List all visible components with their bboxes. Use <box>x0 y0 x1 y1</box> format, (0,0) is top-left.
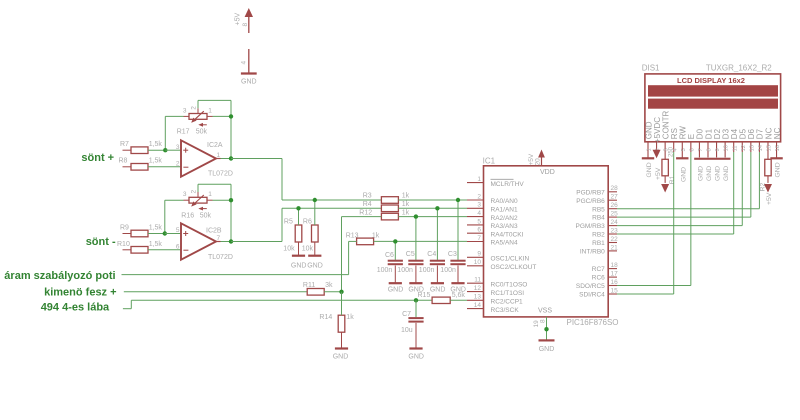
svg-text:15: 15 <box>611 287 619 294</box>
svg-text:6: 6 <box>176 244 180 251</box>
capacitor C3 100n <box>440 200 465 283</box>
svg-text:5: 5 <box>477 218 481 225</box>
svg-text:RC7: RC7 <box>592 266 605 273</box>
svg-text:sönt -: sönt - <box>86 236 116 248</box>
node IC2A output junction <box>229 156 233 160</box>
trimmer R17 50k <box>177 106 213 136</box>
svg-text:C3: C3 <box>448 251 457 258</box>
LCD pin 9 D2 (stub + number + name) <box>713 128 722 152</box>
wire 494 4-es lába to R15 row <box>123 300 432 308</box>
wire R12 input from R11 junction <box>342 217 382 292</box>
svg-text:13: 13 <box>474 294 482 301</box>
resistor R5 10k <box>283 208 302 255</box>
svg-text:R8: R8 <box>119 158 128 165</box>
IC1 pin 27 PGC/RB6 (stub + number + name) <box>576 194 618 205</box>
wire LCD pin6 E to IC1 RC5 <box>617 152 691 286</box>
wire IC2B output <box>221 241 232 243</box>
svg-text:13: 13 <box>749 145 755 151</box>
wire LCD pin14 D7 to IC1 RB5 <box>617 152 759 209</box>
resistor R7 1,5k <box>120 141 165 153</box>
svg-text:1,5k: 1,5k <box>149 225 163 232</box>
svg-text:9: 9 <box>477 251 481 258</box>
svg-text:RC2/CCP1: RC2/CCP1 <box>491 299 524 306</box>
LCD pin 11 D4 (stub + number + name) <box>730 128 739 152</box>
svg-text:GND: GND <box>646 162 653 177</box>
svg-text:5,6k: 5,6k <box>452 292 466 299</box>
svg-text:3: 3 <box>183 191 187 198</box>
svg-text:10: 10 <box>724 145 730 151</box>
svg-text:SDI/RC4: SDI/RC4 <box>579 292 605 299</box>
capacitor C4 100n <box>419 208 445 283</box>
ground C5 <box>408 283 424 293</box>
svg-text:SDO/RC5: SDO/RC5 <box>576 283 605 290</box>
svg-text:26: 26 <box>611 202 619 209</box>
IC1 pin 18 RC7 (stub + number + name) <box>592 262 618 273</box>
wire LCD pin12 D5 to IC1 RB3 <box>617 152 742 226</box>
wire LCD pin13 D6 to IC1 RB4 <box>617 152 751 217</box>
svg-text:3: 3 <box>183 107 187 114</box>
svg-text:5: 5 <box>176 227 180 234</box>
resistor R11 3k <box>303 282 342 295</box>
wire R17 feedback loop top <box>198 100 231 116</box>
svg-text:GND: GND <box>697 166 704 181</box>
ground LCD pin16 <box>770 152 782 178</box>
resistor R10 1,5k <box>117 241 181 253</box>
svg-text:8: 8 <box>707 148 713 151</box>
IC1 pin 28 PGD/RB7 (stub + number + name) <box>576 185 618 196</box>
svg-text:GND: GND <box>715 166 722 181</box>
node R5 top junction <box>296 206 300 210</box>
node R7 / IC2A+ junction <box>163 148 167 152</box>
node R16 pin1 junction <box>229 198 233 202</box>
svg-text:6: 6 <box>689 148 695 151</box>
svg-text:4: 4 <box>240 61 247 65</box>
svg-text:RC0/T1OSO: RC0/T1OSO <box>491 281 528 288</box>
svg-text:21: 21 <box>611 244 619 251</box>
svg-text:GND: GND <box>680 167 687 182</box>
svg-text:GND: GND <box>408 353 424 360</box>
svg-text:PGD/RB7: PGD/RB7 <box>576 189 605 196</box>
svg-text:4: 4 <box>477 210 481 217</box>
svg-text:R4: R4 <box>363 201 372 208</box>
LCD display row bar 1 <box>648 85 778 96</box>
IC1 pin 11 RC0/T1OSO (stub + number + name) <box>467 277 527 289</box>
svg-text:R15: R15 <box>418 292 431 299</box>
net label áram szabályozó poti <box>4 270 115 282</box>
svg-text:8: 8 <box>540 319 547 323</box>
svg-text:7: 7 <box>217 235 221 242</box>
ground C7 <box>408 349 424 361</box>
svg-text:2: 2 <box>477 193 481 200</box>
svg-text:R7: R7 <box>120 141 129 148</box>
svg-text:RA3/AN3: RA3/AN3 <box>491 223 518 230</box>
ground VSS <box>539 340 555 352</box>
IC1 pin 6 RA4/T0CKI (stub + number + name) <box>467 227 524 239</box>
svg-text:RA5/AN4: RA5/AN4 <box>491 240 518 247</box>
svg-text:DIS1: DIS1 <box>642 64 660 73</box>
capacitor C7 10u <box>401 300 424 348</box>
svg-text:LCD DISPLAY 16x2: LCD DISPLAY 16x2 <box>677 76 745 85</box>
svg-text:494 4-es lába: 494 4-es lába <box>41 301 110 313</box>
LCD pin 4 RS (stub + number + name) <box>670 128 679 152</box>
net label kimenö fesz + <box>44 287 116 299</box>
svg-text:sönt +: sönt + <box>81 152 114 164</box>
svg-text:1: 1 <box>477 176 481 183</box>
svg-text:24: 24 <box>611 219 619 226</box>
svg-text:R16: R16 <box>181 212 194 219</box>
svg-text:1k: 1k <box>402 201 410 208</box>
svg-text:11: 11 <box>732 145 738 151</box>
resistor R15 5,6k <box>418 292 468 304</box>
svg-text:VSS: VSS <box>538 308 552 315</box>
svg-text:1k: 1k <box>402 193 410 200</box>
wire R17 pin3 down to non-inverting input <box>165 116 183 150</box>
+5V supply arrow at IC1 VDD pin 20 <box>528 150 545 167</box>
capacitor C6 100n <box>377 241 403 283</box>
IC1 pin 13 RC2/CCP1 (stub + number + name) <box>467 294 523 306</box>
node IC2B output junction <box>229 239 233 243</box>
IC1 pin 26 RB5 (stub + number + name) <box>592 202 618 213</box>
IC1 pin 3 RA1/AN1 (stub + number + name) <box>467 202 518 214</box>
svg-text:RB5: RB5 <box>592 206 605 213</box>
svg-text:GND: GND <box>775 162 782 177</box>
svg-text:RA4/T0CKI: RA4/T0CKI <box>491 231 524 238</box>
svg-text:GND: GND <box>241 79 257 86</box>
node R11/R14/R12 junction <box>339 290 343 294</box>
svg-text:10u: 10u <box>401 327 413 334</box>
svg-text:C6: C6 <box>385 252 394 259</box>
svg-text:8: 8 <box>242 23 249 27</box>
svg-text:GND: GND <box>706 166 713 181</box>
ground LCD pins 7-10 D0-D3 <box>694 152 730 181</box>
svg-text:1k: 1k <box>346 314 354 321</box>
node C5 junction <box>414 214 418 218</box>
svg-text:VDD: VDD <box>540 169 555 176</box>
svg-text:R11: R11 <box>303 282 315 289</box>
svg-text:2: 2 <box>190 106 197 110</box>
IC1 pin 12 RC1/T1OSI (stub + number + name) <box>467 285 524 297</box>
svg-text:10k: 10k <box>302 245 314 252</box>
svg-text:1: 1 <box>217 152 221 159</box>
svg-text:R12: R12 <box>359 209 372 216</box>
ground R5 <box>291 256 307 270</box>
svg-text:TL072D: TL072D <box>208 171 233 178</box>
IC1 pin 4 RA2/AN2 (stub + number + name) <box>467 210 518 222</box>
wire LCD pin4 RS to IC1 RC4 <box>617 152 674 294</box>
svg-text:áram szabályozó poti: áram szabályozó poti <box>4 270 115 282</box>
wire junction to IC2B + input <box>165 233 181 235</box>
LCD pin 14 D7 (stub + number + name) <box>756 128 765 152</box>
op-amp IC2A TL072D <box>176 140 233 177</box>
node R6 top junction <box>313 198 317 202</box>
svg-text:1: 1 <box>208 191 212 198</box>
wire R16 feedback loop top <box>198 184 231 200</box>
svg-text:C5: C5 <box>406 251 415 258</box>
ground C4 <box>430 283 446 293</box>
resistor R2 at LCD pin15 <box>760 152 774 205</box>
svg-text:TL072D: TL072D <box>208 254 233 261</box>
svg-text:IC1: IC1 <box>483 156 496 165</box>
svg-text:INT/RB0: INT/RB0 <box>580 249 605 256</box>
svg-text:16: 16 <box>611 279 619 286</box>
svg-text:R10: R10 <box>117 241 130 248</box>
svg-text:RA0/AN0: RA0/AN0 <box>491 198 518 205</box>
svg-text:7: 7 <box>477 235 481 242</box>
svg-text:RA1/AN1: RA1/AN1 <box>491 207 518 214</box>
IC1 pin 1 MCLR/THV (stub + number + name) <box>467 176 524 188</box>
op-amp IC2B TL072D <box>176 223 233 261</box>
resistor R6 10k <box>302 200 318 256</box>
IC1 pin 2 RA0/AN0 (stub + number + name) <box>467 193 518 205</box>
node C4 junction <box>435 206 439 210</box>
svg-text:+5V: +5V <box>655 167 662 180</box>
svg-text:17: 17 <box>611 271 619 278</box>
IC1 pin 10 OSC2/CLKOUT (stub + number + name) <box>467 259 536 271</box>
IC1 VSS pins 19/8 to ground <box>533 317 549 341</box>
ground C3 <box>450 283 466 293</box>
LCD pin 8 D1 (stub + number + name) <box>704 128 713 152</box>
svg-text:1,5k: 1,5k <box>149 158 163 165</box>
svg-text:R3: R3 <box>363 193 372 200</box>
svg-text:3: 3 <box>176 144 180 151</box>
node R17 pin1 junction <box>229 114 233 118</box>
resistor R14 1k <box>319 292 354 349</box>
net label 494 4-es lába <box>41 301 110 313</box>
svg-text:5: 5 <box>681 148 687 151</box>
resistor R1 at LCD pin3 CONTR <box>661 146 676 192</box>
svg-text:2: 2 <box>190 190 197 194</box>
svg-text:3: 3 <box>477 202 481 209</box>
IC1 pin 9 OSC1/CLKIN (stub + number + name) <box>467 251 529 263</box>
node C7 junction <box>414 298 418 302</box>
node C6 junction <box>393 239 397 243</box>
resistor R4 1k <box>363 201 467 212</box>
svg-text:R5: R5 <box>284 218 293 225</box>
IC1 pin 17 RC6 (stub + number + name) <box>592 271 618 282</box>
LCD pin 15 NC (stub + number + name) <box>764 127 773 152</box>
wire R16 pin3 down to IC2B+ input <box>165 200 184 233</box>
svg-text:28: 28 <box>611 185 619 192</box>
svg-text:2: 2 <box>176 161 180 168</box>
svg-text:6: 6 <box>477 227 481 234</box>
svg-text:GND: GND <box>723 166 730 181</box>
resistor R9 1,5k <box>120 225 165 237</box>
wire kimenö fesz + to R11 <box>124 291 307 293</box>
LCD pin 1 GND (stub + number + name) <box>644 121 653 152</box>
resistor R8 1,5k <box>119 158 182 171</box>
IC1 pin 5 RA3/AN3 (stub + number + name) <box>467 218 518 230</box>
svg-text:10: 10 <box>474 259 482 266</box>
LCD pin 7 D0 (stub + number + name) <box>696 128 705 152</box>
svg-text:TUXGR_16X2_R2: TUXGR_16X2_R2 <box>706 64 772 73</box>
svg-text:PGC/RB6: PGC/RB6 <box>576 198 605 205</box>
svg-text:1,5k: 1,5k <box>149 141 163 148</box>
ground LCD pin1 <box>642 152 654 178</box>
svg-text:OSC1/CLKIN: OSC1/CLKIN <box>491 256 530 263</box>
+5V arrow down at LCD pin2 VCC <box>653 150 662 180</box>
ground R14 <box>333 349 349 361</box>
svg-text:100n: 100n <box>397 267 413 274</box>
resistor R12 1k <box>359 209 467 220</box>
svg-text:R13: R13 <box>346 233 359 240</box>
LCD pin 2 +5VDC (stub + number + name) <box>653 117 662 152</box>
IC1 pin 24 PGM/RB3 (stub + number + name) <box>576 219 619 230</box>
svg-text:RC1/T1OSI: RC1/T1OSI <box>491 290 525 297</box>
svg-text:IC2A: IC2A <box>207 142 223 149</box>
IC1 pin 21 INT/RB0 (stub + number + name) <box>580 244 618 255</box>
svg-text:1k: 1k <box>372 233 380 240</box>
net label sönt - <box>86 236 116 248</box>
svg-text:NC: NC <box>773 127 782 139</box>
svg-text:kimenö fesz +: kimenö fesz + <box>44 287 116 299</box>
svg-text:10k: 10k <box>283 245 295 252</box>
svg-text:R1: R1 <box>669 175 676 184</box>
microcontroller IC1 PIC16F876SO body <box>483 156 619 326</box>
svg-text:100n: 100n <box>419 267 435 274</box>
wire IC2B output to R4 row <box>231 208 381 241</box>
svg-text:RB1: RB1 <box>592 240 605 247</box>
trimmer R16 50k <box>181 190 212 220</box>
svg-text:R9: R9 <box>120 225 129 232</box>
LCD pin 13 D6 (stub + number + name) <box>747 128 756 152</box>
svg-text:OSC2/CLKOUT: OSC2/CLKOUT <box>491 264 537 271</box>
svg-text:R6: R6 <box>303 218 312 225</box>
svg-text:1,5k: 1,5k <box>149 241 163 248</box>
svg-text:15: 15 <box>767 145 773 151</box>
svg-text:GND: GND <box>430 287 446 294</box>
svg-text:MCLR/THV: MCLR/THV <box>491 181 525 188</box>
svg-text:11: 11 <box>474 277 481 284</box>
wire LCD pin11 D4 to IC1 RB2 <box>617 152 734 234</box>
svg-text:3k: 3k <box>325 282 333 289</box>
svg-text:RB4: RB4 <box>592 215 605 222</box>
wire IC2A output to R3 row <box>231 159 381 201</box>
svg-text:R17: R17 <box>177 129 190 136</box>
IC1 pin 22 RB1 (stub + number + name) <box>592 236 618 247</box>
svg-text:16: 16 <box>775 145 781 151</box>
wire R17 pin1 to output column <box>213 116 232 158</box>
svg-text:20: 20 <box>535 158 542 166</box>
wire junction to IC2A + input <box>165 149 181 151</box>
svg-text:25: 25 <box>611 211 619 218</box>
svg-text:GND: GND <box>388 287 404 294</box>
node R9 / IC2B+ junction <box>163 231 167 235</box>
svg-text:12: 12 <box>474 285 482 292</box>
IC1 pin 23 RB2 (stub + number + name) <box>592 227 618 238</box>
ground LCD pin5 RW <box>676 152 688 182</box>
svg-text:RC6: RC6 <box>592 275 605 282</box>
svg-text:+5V: +5V <box>766 192 773 205</box>
svg-text:PIC16F876SO: PIC16F876SO <box>567 318 619 327</box>
svg-text:GND: GND <box>307 262 323 269</box>
svg-text:R2: R2 <box>760 182 767 191</box>
svg-text:RC3/SCK: RC3/SCK <box>491 307 520 314</box>
resistor R13 1k <box>346 233 467 245</box>
svg-text:100n: 100n <box>377 267 393 274</box>
svg-text:12: 12 <box>741 145 747 151</box>
ground R6 <box>307 256 323 270</box>
svg-text:14: 14 <box>474 302 482 309</box>
IC1 pin 7 RA5/AN4 (stub + number + name) <box>467 235 518 247</box>
svg-text:50k: 50k <box>196 129 208 136</box>
LCD pin 16 NC (stub + number + name) <box>773 127 782 152</box>
svg-text:18: 18 <box>611 262 619 269</box>
node C3 junction <box>456 198 460 202</box>
LCD pin 6 E (stub + number + name) <box>687 134 696 152</box>
svg-text:PGM/RB3: PGM/RB3 <box>576 223 606 230</box>
IC1 pin 16 SDO/RC5 (stub + number + name) <box>576 279 618 290</box>
svg-text:1: 1 <box>647 148 653 151</box>
ground C6 <box>388 283 404 293</box>
resistor R3 1k <box>363 193 467 204</box>
svg-text:100n: 100n <box>440 267 456 274</box>
net label sönt + <box>81 152 114 164</box>
LCD display row bar 2 <box>648 99 778 109</box>
IC1 pin 15 SDI/RC4 (stub + number + name) <box>579 287 618 298</box>
LCD display DIS1 TUXGR_16X2_R2 body <box>642 64 781 142</box>
IC1 pin 25 RB4 (stub + number + name) <box>592 211 618 222</box>
+5V supply symbol (op-amp V+ pin 8) <box>235 8 254 33</box>
LCD pin 12 D5 (stub + number + name) <box>739 128 748 152</box>
LCD pin 5 RW (stub + number + name) <box>679 126 688 152</box>
svg-text:RA2/AN2: RA2/AN2 <box>491 215 518 222</box>
svg-text:23: 23 <box>611 227 619 234</box>
svg-text:C4: C4 <box>427 251 436 258</box>
capacitor C5 100n <box>397 217 423 284</box>
svg-text:R14: R14 <box>319 314 332 321</box>
svg-text:RB2: RB2 <box>592 232 605 239</box>
svg-text:GND: GND <box>539 346 555 353</box>
wire áram szabályozó poti to R13 <box>122 241 349 274</box>
svg-text:GND: GND <box>291 262 307 269</box>
svg-text:C7: C7 <box>402 311 411 318</box>
IC1 pin 14 RC3/SCK (stub + number + name) <box>467 302 519 314</box>
svg-text:1: 1 <box>208 107 212 114</box>
svg-text:22: 22 <box>611 236 619 243</box>
ground symbol GND (op-amp V- pin 4) <box>240 49 256 86</box>
LCD pin 10 D3 (stub + number + name) <box>721 128 730 152</box>
svg-text:IC2B: IC2B <box>206 228 222 235</box>
wire IC2A output <box>221 158 232 160</box>
wire R16 pin1 to output column <box>213 200 232 241</box>
svg-text:27: 27 <box>611 194 619 201</box>
svg-text:9: 9 <box>715 148 721 151</box>
svg-text:14: 14 <box>758 144 764 151</box>
LCD pin 3 CONTR (stub + number + name) <box>661 111 670 152</box>
svg-text:GND: GND <box>333 353 349 360</box>
svg-text:50k: 50k <box>200 212 212 219</box>
svg-text:+5V: +5V <box>235 13 242 26</box>
svg-text:1k: 1k <box>402 209 410 216</box>
svg-text:7: 7 <box>698 148 704 151</box>
